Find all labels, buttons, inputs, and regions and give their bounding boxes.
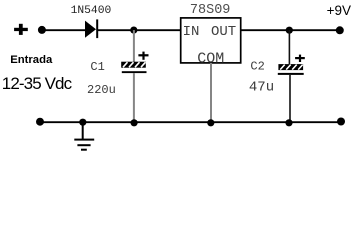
svg-text:220u: 220u — [87, 83, 116, 97]
wire ground rail — [40, 121, 341, 123]
ground — [74, 122, 94, 151]
svg-text:+9V: +9V — [327, 3, 351, 18]
node ground junction dot — [79, 119, 86, 126]
capacitor C2 electrolytic plates — [278, 64, 304, 75]
node + input positive terminal — [14, 24, 28, 35]
wire junction down to C2 top plate — [288, 30, 290, 64]
svg-text:1N5400: 1N5400 — [71, 5, 112, 17]
wire COM pin down to ground rail — [210, 63, 212, 123]
wire C1 bottom plate to ground rail — [133, 73, 135, 122]
svg-text:C1: C1 — [90, 60, 104, 74]
node junction top of C1 — [130, 27, 137, 34]
node bottom-right terminal dot — [337, 118, 345, 126]
node COM bottom junction dot — [207, 119, 214, 126]
svg-text:47u: 47u — [249, 80, 274, 96]
svg-text:C2: C2 — [250, 60, 264, 74]
capacitor C1 electrolytic plates — [121, 62, 146, 73]
wire input dot to diode anode — [42, 29, 86, 31]
capacitor C2 polarity + — [295, 55, 305, 62]
wire C2 bottom plate to ground rail — [289, 75, 291, 123]
svg-text:OUT: OUT — [211, 24, 236, 40]
regulator U1 78S09 box — [181, 18, 241, 63]
svg-text:78S09: 78S09 — [190, 3, 231, 18]
wire regulator OUT to +9V node — [241, 29, 340, 31]
diode D1 1N5400 — [85, 19, 98, 38]
svg-text:Entrada: Entrada — [10, 54, 53, 66]
wire junction down to C1 top plate — [133, 30, 135, 62]
svg-text:IN: IN — [183, 24, 200, 40]
node bottom-left terminal dot — [36, 118, 44, 126]
svg-text:12-35 Vdc: 12-35 Vdc — [2, 74, 73, 93]
wire diode cathode to regulator IN — [98, 29, 181, 31]
node input terminal dot — [38, 26, 46, 34]
node C1 bottom junction dot — [131, 119, 138, 126]
capacitor C1 polarity + — [138, 52, 148, 60]
node C2 bottom junction dot — [285, 119, 292, 126]
node +9V output terminal dot — [336, 26, 344, 34]
node junction top of C2 — [286, 27, 293, 34]
